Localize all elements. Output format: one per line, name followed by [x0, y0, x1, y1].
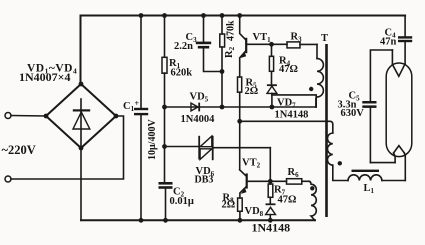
- svg-text:1N4007×4: 1N4007×4: [19, 70, 71, 84]
- node VD7 anode junction: [270, 105, 275, 110]
- node diac row at R1 column: [162, 144, 167, 149]
- label VD1~VD4: [27, 63, 77, 76]
- label T: [321, 33, 328, 44]
- resistor R2 470k: [220, 16, 225, 108]
- svg-text:10μ/400V: 10μ/400V: [147, 119, 158, 160]
- node bridge left vertex: [44, 114, 49, 119]
- label VT1: [253, 32, 272, 44]
- label R8: [223, 193, 235, 205]
- resistor R8 2ohm: [238, 198, 243, 220]
- node line A at R1 column: [162, 105, 167, 110]
- node C1 top rail junction: [139, 13, 144, 18]
- svg-text:47Ω: 47Ω: [278, 195, 297, 206]
- diode VD8 1N4148: [266, 203, 276, 220]
- capacitor C5 3.3n: [362, 101, 376, 163]
- label VT2: [242, 158, 261, 170]
- label ~220V: [2, 143, 36, 157]
- value label 47n: [380, 37, 397, 48]
- fluorescent lamp tube: [386, 63, 412, 157]
- svg-text:1N4148: 1N4148: [275, 110, 309, 121]
- wire bridge top to rail: [80, 16, 82, 85]
- node C3/R2 junction: [220, 69, 225, 74]
- svg-text:T: T: [321, 33, 328, 44]
- svg-text:2.2n: 2.2n: [174, 41, 193, 52]
- resistor R5 2ohm: [238, 77, 242, 170]
- diode VD7 1N4148: [267, 84, 277, 107]
- label C3: [186, 32, 198, 44]
- value label 1N4148 VD8: [252, 221, 291, 235]
- node C1 bottom rail junction: [139, 218, 144, 223]
- value label 1N4004: [181, 114, 216, 125]
- svg-text:~220V: ~220V: [2, 143, 36, 157]
- svg-text:630V: 630V: [341, 108, 365, 119]
- svg-text:+: +: [135, 99, 140, 108]
- wire top DC+ rail: [81, 15, 406, 17]
- label R1: [169, 58, 181, 70]
- wire diac to VT2 base column: [269, 148, 271, 184]
- input terminal top: [5, 113, 11, 119]
- resistor R3: [287, 42, 317, 48]
- value label 3.3n: [338, 100, 357, 111]
- label VD6: [196, 166, 215, 178]
- resistor R7 47ohm: [268, 184, 273, 203]
- input terminal bottom: [5, 176, 11, 182]
- node VT1 base junction: [269, 42, 274, 47]
- diode symbol inside bridge: [73, 99, 90, 146]
- polarity dot W1: [309, 87, 313, 91]
- label VD5: [190, 92, 209, 104]
- value label 1N4148 VD7: [275, 110, 309, 121]
- transformer T feedback winding W2: [309, 181, 316, 220]
- transistor VT2: [240, 170, 287, 198]
- svg-text:1N4004: 1N4004: [181, 114, 216, 125]
- node R8 bottom rail junction: [238, 218, 243, 223]
- resistor R4 47ohm: [269, 44, 273, 84]
- label L1: [364, 183, 375, 195]
- value label 620k: [171, 68, 193, 79]
- value label 47ohm R4: [279, 64, 298, 75]
- node C3 top rail junction: [201, 13, 206, 18]
- lamp bottom filament: [394, 146, 405, 163]
- node VD8 bottom rail junction: [268, 218, 273, 223]
- node C2 bottom rail junction: [163, 218, 168, 223]
- wire AC live input: [11, 115, 46, 118]
- node bridge bottom vertex: [79, 146, 84, 151]
- lamp top filament: [392, 50, 404, 76]
- node R1 top rail junction: [162, 13, 167, 18]
- capacitor C2 0.01u: [159, 182, 173, 220]
- value label 2.2n: [174, 41, 193, 52]
- transformer T primary winding W3: [327, 133, 348, 181]
- wire lamp bottom right lead: [404, 153, 405, 181]
- svg-text:47Ω: 47Ω: [279, 64, 298, 75]
- svg-text:47n: 47n: [380, 37, 397, 48]
- resistor R6: [287, 179, 310, 184]
- value label 47ohm R7: [278, 195, 297, 206]
- node VT2 base junction: [268, 179, 273, 184]
- wire midpoint line to primary: [240, 121, 333, 133]
- label R6: [288, 167, 300, 179]
- label C4: [385, 28, 397, 40]
- value label 10u/400V rotated: [147, 119, 158, 160]
- value label 470k rotated: [226, 20, 237, 41]
- svg-text:470k: 470k: [226, 20, 237, 41]
- value label 2ohm R5: [245, 86, 259, 97]
- wire bridge bottom to ground rail: [80, 148, 82, 220]
- label C1: [123, 99, 140, 113]
- transformer T feedback winding W1: [316, 44, 324, 107]
- label R4: [279, 56, 291, 68]
- capacitor C4 47n: [398, 16, 412, 65]
- polarity dot W2: [310, 186, 314, 190]
- svg-text:1N4148: 1N4148: [252, 221, 291, 235]
- node VT1 collector rail junction: [237, 13, 242, 18]
- transistor VT1: [240, 38, 287, 77]
- wire line A (VD5 row): [165, 106, 317, 108]
- bridge rectifier VD1-VD4 diamond: [46, 84, 116, 148]
- label R3: [291, 32, 303, 44]
- inductor L1: [348, 170, 405, 181]
- svg-text:0.01μ: 0.01μ: [170, 196, 194, 207]
- label R2 rotated: [224, 46, 236, 58]
- label 1N4007x4: [19, 70, 71, 84]
- value label 2ohm R8: [222, 200, 236, 211]
- capacitor C1 electrolytic: [134, 16, 148, 221]
- label VD7: [277, 98, 296, 110]
- diac VD6 DB3: [198, 136, 270, 160]
- wire diac row: [165, 146, 199, 148]
- label C2: [173, 187, 185, 199]
- label R5: [246, 78, 258, 90]
- diode VD5 1N4004: [191, 103, 200, 112]
- node R2 top rail junction: [220, 13, 225, 18]
- svg-text:620k: 620k: [171, 68, 193, 79]
- wire lamp bottom left lead: [370, 162, 395, 164]
- wire VD7 box to winding bottom: [272, 95, 316, 107]
- node bridge top vertex: [79, 82, 84, 87]
- resistor R1 620k: [162, 16, 167, 183]
- svg-text:DB3: DB3: [195, 175, 214, 186]
- node bridge right vertex: [114, 114, 119, 119]
- wire lamp top left lead to C5: [370, 50, 392, 101]
- svg-text:2Ω: 2Ω: [245, 86, 259, 97]
- transformer core: [325, 44, 328, 217]
- node R2 bottom line A junction: [220, 105, 225, 110]
- wire AC neutral to bridge right vertex: [11, 116, 124, 179]
- svg-text:2Ω: 2Ω: [222, 200, 236, 211]
- polarity dot W3: [338, 161, 342, 165]
- label R7: [274, 185, 286, 197]
- capacitor C3 2.2n: [196, 16, 222, 72]
- value label 630V: [341, 108, 365, 119]
- value label 0.01u: [170, 196, 194, 207]
- wire VT1 collector to rail: [240, 16, 246, 40]
- value label DB3: [195, 175, 214, 186]
- label C5: [349, 91, 361, 103]
- label VD8: [245, 206, 264, 218]
- node midpoint junction: [237, 119, 242, 124]
- wire bottom DC- rail: [81, 219, 315, 221]
